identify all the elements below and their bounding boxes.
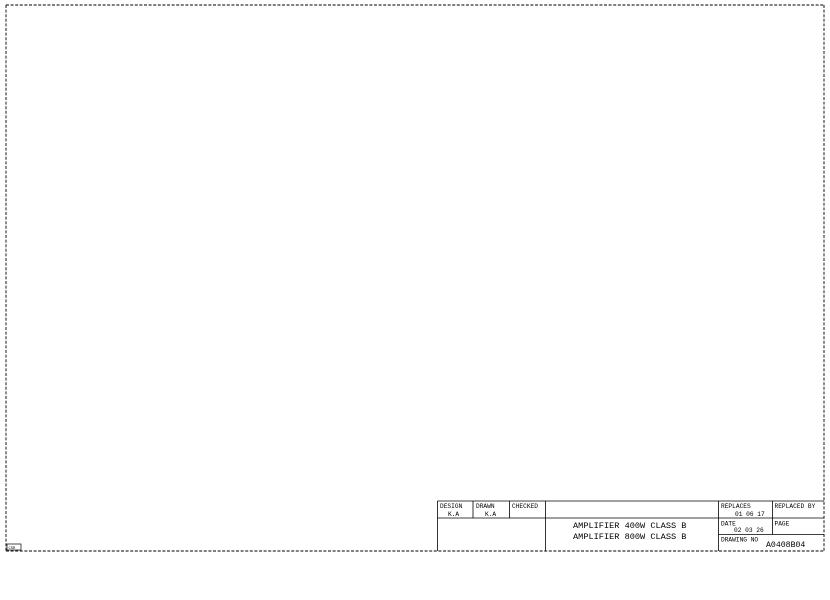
svg-text:CHECKED: CHECKED [512,503,538,510]
svg-text:DRAWING NO: DRAWING NO [721,537,758,544]
svg-text:K.A: K.A [448,511,459,518]
svg-text:AMPLIFIER 400W CLASS B: AMPLIFIER 400W CLASS B [573,521,686,531]
svg-text:A0408B04: A0408B04 [766,541,805,550]
svg-text:REPLACES: REPLACES [721,503,751,510]
svg-text:PAGE: PAGE [775,521,790,528]
svg-text:K.A: K.A [485,511,496,518]
svg-text:01 06 17: 01 06 17 [735,511,765,518]
svg-text:CSR: CSR [9,547,17,551]
svg-text:DESIGN: DESIGN [440,503,463,510]
svg-text:REPLACED BY: REPLACED BY [775,503,816,510]
svg-text:02 03 26: 02 03 26 [734,527,764,534]
svg-text:DRAWN: DRAWN [476,503,495,510]
svg-text:AMPLIFIER 800W CLASS B: AMPLIFIER 800W CLASS B [573,532,686,542]
